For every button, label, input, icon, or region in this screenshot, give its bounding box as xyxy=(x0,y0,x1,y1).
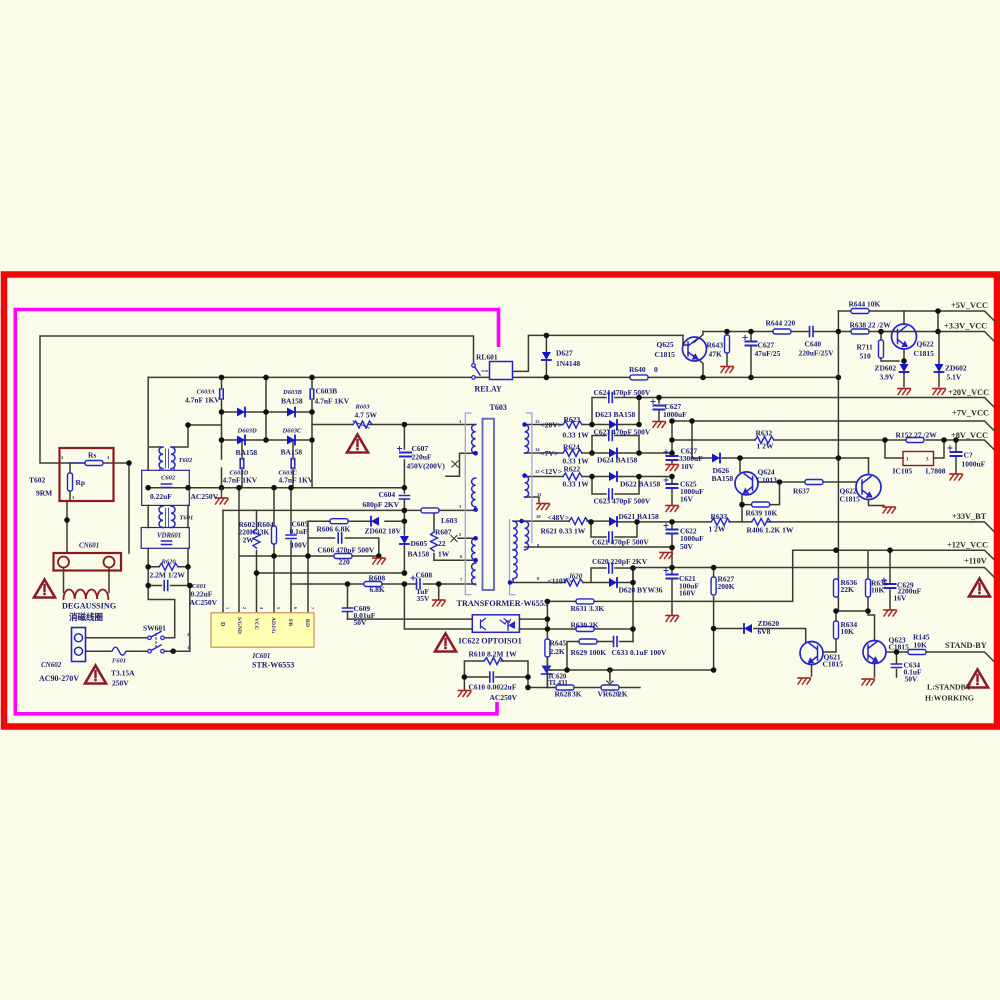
transformer primary winding 1 xyxy=(472,425,476,454)
resistor R606 xyxy=(330,519,348,524)
svg-text:47K: 47K xyxy=(709,350,723,359)
resistor R637 xyxy=(805,480,823,485)
svg-text:R633: R633 xyxy=(711,512,728,521)
svg-text:33K: 33K xyxy=(256,528,270,537)
wire snubber ZD row y521 xyxy=(308,510,404,573)
inductor L603 xyxy=(421,508,439,513)
svg-text:C633 0.1uF 100V: C633 0.1uF 100V xyxy=(612,648,668,657)
diode D603B xyxy=(287,408,295,417)
wire bottom row y687 xyxy=(528,687,640,689)
svg-text:2W: 2W xyxy=(243,536,255,545)
transformer primary winding 2 xyxy=(472,478,476,507)
ground AC250V xyxy=(221,488,223,497)
svg-text:AC250V: AC250V xyxy=(191,492,219,501)
svg-text:Rp: Rp xyxy=(76,478,86,487)
diode D627 xyxy=(542,352,551,360)
fuse F601 xyxy=(110,647,127,655)
capacitor C603B xyxy=(310,389,314,399)
svg-text:C621 470pF 500V: C621 470pF 500V xyxy=(592,538,649,547)
svg-text:0.1uF: 0.1uF xyxy=(290,527,309,536)
svg-text:R637: R637 xyxy=(793,487,810,496)
svg-text:IC601: IC601 xyxy=(252,652,271,660)
svg-text:VDR601: VDR601 xyxy=(157,533,181,540)
wire C606 row y538 xyxy=(308,521,379,556)
transformer secondary winding A xyxy=(525,425,529,454)
regulator IC105 L7808 xyxy=(903,452,934,466)
resistor R640 xyxy=(630,375,648,380)
capacitor C604 xyxy=(399,496,409,500)
transistor Q622 xyxy=(892,324,917,349)
resistor R610 xyxy=(484,658,503,665)
svg-text:BA158: BA158 xyxy=(281,397,303,406)
resistor J620 xyxy=(564,579,583,586)
svg-text:R628: R628 xyxy=(555,690,572,699)
svg-text:Q622: Q622 xyxy=(917,340,934,349)
capacitor C640 xyxy=(810,327,814,337)
svg-text:D603C: D603C xyxy=(282,428,302,435)
svg-text:10V: 10V xyxy=(681,462,695,471)
node dot Rp bottom xyxy=(64,517,70,523)
ground C627 3300 xyxy=(666,465,679,471)
resistor R608 xyxy=(364,582,382,587)
svg-text:IC105: IC105 xyxy=(893,467,913,476)
wire ZD620 row xyxy=(714,629,806,643)
transformer T603 core xyxy=(483,419,495,590)
connector CN601 xyxy=(54,553,122,571)
wire AC mains bus y377 xyxy=(148,376,471,378)
svg-text:AC90-270V: AC90-270V xyxy=(39,674,79,683)
svg-text:2.2M 1/2W: 2.2M 1/2W xyxy=(150,571,186,580)
svg-text:2K: 2K xyxy=(618,690,628,699)
svg-text:+12V_VCC: +12V_VCC xyxy=(947,541,988,550)
svg-text:9RM: 9RM xyxy=(36,489,52,498)
resistor R638 xyxy=(851,329,869,334)
resistor R627 xyxy=(711,577,716,595)
resistor R629 xyxy=(579,639,597,644)
svg-text:R406 1.2K 1W: R406 1.2K 1W xyxy=(747,526,794,535)
capacitor C621 470pF xyxy=(609,532,613,542)
svg-text:<20V>: <20V> xyxy=(541,421,562,430)
ground C629 xyxy=(884,610,897,616)
svg-text:D605: D605 xyxy=(411,539,428,548)
svg-text:C620 220pF 2KV: C620 220pF 2KV xyxy=(592,557,648,566)
capacitor C624 xyxy=(609,393,613,403)
capacitor C627 470pF xyxy=(609,431,613,441)
IC601 STR-W6553 xyxy=(211,613,314,647)
svg-text:D620 BYW36: D620 BYW36 xyxy=(619,586,663,595)
ground Q622 b xyxy=(883,507,896,513)
pin 5 tap mark xyxy=(451,536,457,542)
svg-text:1: 1 xyxy=(225,607,230,609)
svg-text:C?: C? xyxy=(964,451,973,460)
svg-text:C608: C608 xyxy=(416,571,433,580)
ground snubber xyxy=(373,558,386,564)
T602 posistor box xyxy=(60,448,114,501)
transformer secondary winding B xyxy=(525,476,529,498)
svg-text:3K: 3K xyxy=(572,690,582,699)
diode D605 xyxy=(400,536,409,544)
svg-text:50V: 50V xyxy=(354,618,368,627)
node dots C602 row xyxy=(145,485,151,491)
svg-text:+110V: +110V xyxy=(964,557,987,566)
ground pin11 xyxy=(537,504,550,510)
wire +7V rail and C627-3300 xyxy=(672,421,994,463)
svg-text:C1815: C1815 xyxy=(823,660,844,669)
red outer frame xyxy=(4,275,997,727)
svg-text:7: 7 xyxy=(310,607,315,609)
capacitor C602 box xyxy=(142,470,190,505)
wire R632 R152 +8V row xyxy=(672,440,994,473)
wire +110V rail xyxy=(633,568,994,615)
wire 220 row y556 xyxy=(240,555,379,557)
svg-text:3.9V: 3.9V xyxy=(880,373,895,382)
svg-text:L603: L603 xyxy=(441,516,458,525)
wire CN602 to switch xyxy=(86,638,148,651)
transistor Q625 xyxy=(683,337,707,361)
svg-text:RELAY: RELAY xyxy=(475,385,502,394)
svg-text:<12V>: <12V> xyxy=(541,467,562,476)
resistor R604 xyxy=(272,526,277,544)
ground R643 xyxy=(721,367,734,373)
warning triangle R603 xyxy=(347,435,368,453)
svg-text:C604: C604 xyxy=(379,490,396,499)
varistor VDR601 box xyxy=(141,528,189,549)
capacitor C610 xyxy=(490,672,494,682)
svg-text:STAND-BY: STAND-BY xyxy=(945,641,987,650)
wire AC choke verticals xyxy=(148,377,221,585)
wire C622 vertical xyxy=(671,522,673,568)
svg-text:10K: 10K xyxy=(841,627,855,636)
transformer secondary winding D xyxy=(525,521,529,550)
wire feedback R631 row xyxy=(547,550,792,687)
svg-text:+20V_VCC: +20V_VCC xyxy=(948,388,989,397)
wire R145 standby row xyxy=(886,652,994,677)
wire top right R643 C627 C640 row xyxy=(630,332,898,378)
wire secondary row3 12V xyxy=(525,477,672,505)
warning triangle degaussing xyxy=(34,580,55,598)
svg-text:6V8: 6V8 xyxy=(758,627,771,636)
ground C621 100uF xyxy=(666,616,679,622)
diode D623 xyxy=(609,420,617,429)
svg-text:C1815: C1815 xyxy=(840,495,861,504)
capacitor C? xyxy=(948,446,962,456)
svg-text:L:STANDBY: L:STANDBY xyxy=(927,683,972,692)
warning triangle opto xyxy=(435,634,456,652)
warning triangle right top xyxy=(969,579,990,597)
svg-text:+5V_VCC: +5V_VCC xyxy=(951,301,988,310)
choke T602 xyxy=(159,447,163,469)
ground Q623 xyxy=(862,679,875,685)
svg-text:STR-W6553: STR-W6553 xyxy=(252,661,294,670)
wire big vertical x838 xyxy=(837,311,839,611)
svg-text:IC622 OPTOISO1: IC622 OPTOISO1 xyxy=(459,637,522,646)
zener ZD602 3.9V xyxy=(900,364,909,372)
svg-text:RL601: RL601 xyxy=(476,353,498,362)
resistor R631 xyxy=(576,599,594,604)
svg-text:<48V>: <48V> xyxy=(548,513,569,522)
svg-text:FB: FB xyxy=(287,619,293,626)
svg-text:200K: 200K xyxy=(718,582,735,591)
zener ZD602 18V xyxy=(371,517,379,526)
wire D626 row xyxy=(692,457,869,459)
resistor R623 xyxy=(563,421,582,428)
svg-text:ZD602 18V: ZD602 18V xyxy=(365,527,402,536)
wire secondary pin11 gnd xyxy=(525,497,539,502)
wire R620 C601 rows xyxy=(148,567,190,586)
svg-text:2.2K: 2.2K xyxy=(550,647,565,656)
svg-text:Q625: Q625 xyxy=(657,340,674,349)
diode D603D xyxy=(237,436,245,445)
resistor R632 xyxy=(755,437,774,444)
svg-text:R644 10K: R644 10K xyxy=(849,300,881,309)
transistor Q624 xyxy=(735,472,758,495)
wire secondary row4 48V xyxy=(513,521,994,537)
wire Q625 area xyxy=(683,332,703,378)
wire secondary pin9 xyxy=(525,546,672,548)
svg-text:100V: 100V xyxy=(291,541,308,550)
optocoupler IC622 xyxy=(472,615,519,633)
transistor Q622 b xyxy=(856,475,881,500)
svg-text:D624 BA158: D624 BA158 xyxy=(597,456,637,465)
svg-text:47uF/25: 47uF/25 xyxy=(755,349,781,358)
capacitor C603C xyxy=(291,459,295,469)
pot VR620 xyxy=(601,685,619,690)
svg-text:1000uF: 1000uF xyxy=(962,460,986,469)
warning triangle fuse xyxy=(85,666,106,684)
ground ZD602 5.1 xyxy=(933,389,946,395)
capacitor C606 xyxy=(338,533,342,543)
svg-text:450V(200V): 450V(200V) xyxy=(407,462,446,471)
svg-text:4.7nF 1KV: 4.7nF 1KV xyxy=(315,397,350,406)
capacitor C625 xyxy=(664,478,678,488)
svg-text:BA158: BA158 xyxy=(712,474,734,483)
svg-text:R608: R608 xyxy=(369,574,386,583)
resistor R145 xyxy=(908,650,926,655)
svg-text:2: 2 xyxy=(242,607,247,609)
svg-text:+8V_VCC: +8V_VCC xyxy=(951,431,988,440)
svg-text:1 2W: 1 2W xyxy=(709,525,726,534)
svg-text:SW601: SW601 xyxy=(143,624,166,633)
wire +5V rail R644 xyxy=(838,311,994,332)
capacitor C634 xyxy=(892,664,902,668)
transformer secondary brackets xyxy=(510,413,532,595)
svg-text:220: 220 xyxy=(339,558,351,567)
svg-text:D623 BA158: D623 BA158 xyxy=(595,410,635,419)
diode D622 xyxy=(609,472,617,481)
svg-text:4.7nF 1KV: 4.7nF 1KV xyxy=(223,476,258,485)
diode D620 xyxy=(609,578,617,587)
wire bridge columns xyxy=(222,377,313,487)
svg-text:22K: 22K xyxy=(841,585,855,594)
svg-text:C623 470pF 500V: C623 470pF 500V xyxy=(594,497,651,506)
svg-text:R607: R607 xyxy=(435,528,452,537)
svg-text:VCC: VCC xyxy=(253,618,259,630)
svg-text:R624: R624 xyxy=(563,443,580,452)
svg-text:C627 470pF 500V: C627 470pF 500V xyxy=(594,428,651,437)
resistor R603 fusible xyxy=(353,421,372,428)
wire secondary row5 110V xyxy=(510,568,633,583)
svg-text:14: 14 xyxy=(535,447,540,452)
wire secondary row2 7V xyxy=(525,436,672,454)
resistor R621 xyxy=(569,518,588,525)
svg-text:D627: D627 xyxy=(556,349,573,358)
svg-text:CN602: CN602 xyxy=(41,661,62,669)
svg-text:4.7nF 1KV: 4.7nF 1KV xyxy=(185,396,220,405)
svg-text:ADJ/G: ADJ/G xyxy=(270,617,276,634)
bridge node dots xyxy=(219,375,225,381)
svg-text:C602: C602 xyxy=(161,475,176,482)
zener ZD620 xyxy=(744,624,752,633)
node dot switch out xyxy=(170,648,176,654)
capacitor C623 xyxy=(609,489,613,499)
wire SW601 to chokes xyxy=(148,586,190,652)
capacitor C621 100uF xyxy=(664,569,678,579)
svg-text:11: 11 xyxy=(537,492,542,497)
svg-text:R711: R711 xyxy=(857,343,874,352)
svg-text:R639 10K: R639 10K xyxy=(746,509,778,518)
svg-text:T601: T601 xyxy=(180,515,194,522)
svg-text:CN601: CN601 xyxy=(79,542,99,550)
diode D603A xyxy=(237,408,245,417)
ground C625 xyxy=(666,506,679,512)
wire Q621 Q623 xyxy=(812,611,875,677)
capacitor C605 xyxy=(286,535,296,539)
resistor R643 xyxy=(725,335,730,353)
wire top left loop xyxy=(40,336,474,553)
svg-text:T602: T602 xyxy=(179,457,193,464)
resistor R602 xyxy=(253,529,260,548)
wire TL431 row y670 xyxy=(547,670,713,681)
wire R635 R636 R634 xyxy=(823,550,890,652)
capacitor C608 xyxy=(417,579,421,589)
wire vcc bus y573 xyxy=(257,572,405,574)
ground C? xyxy=(950,474,963,480)
svg-text:R603: R603 xyxy=(355,404,371,411)
wire FB row y584 xyxy=(291,584,476,599)
svg-text:<7V>: <7V> xyxy=(541,449,559,458)
svg-text:R632: R632 xyxy=(756,429,773,438)
resistor R639 xyxy=(752,502,770,507)
svg-text:R623: R623 xyxy=(564,415,581,424)
svg-text:5.1V: 5.1V xyxy=(947,373,962,382)
svg-text:TL431: TL431 xyxy=(549,680,569,687)
svg-text:0.33 1W: 0.33 1W xyxy=(563,480,590,489)
svg-text:T602: T602 xyxy=(29,476,46,485)
svg-text:680pF 2KV: 680pF 2KV xyxy=(363,500,400,509)
capacitor C629 xyxy=(882,578,896,588)
svg-text:T603: T603 xyxy=(490,403,507,412)
svg-text:消磁线圈: 消磁线圈 xyxy=(69,612,103,622)
resistor R645 xyxy=(545,639,550,657)
svg-text:13: 13 xyxy=(535,419,540,424)
svg-text:+3.3V_VCC: +3.3V_VCC xyxy=(944,322,987,331)
wire C607 vertical xyxy=(403,425,405,488)
svg-text:AC250V: AC250V xyxy=(190,598,218,607)
svg-text:220uF/25V: 220uF/25V xyxy=(799,349,835,358)
capacitor C601 xyxy=(164,581,168,591)
diode D603C xyxy=(287,436,295,445)
svg-text:50V: 50V xyxy=(905,675,919,684)
relay RL601 xyxy=(472,364,476,368)
wire Q622 top xyxy=(904,311,939,387)
resistor R636 xyxy=(834,579,839,597)
svg-text:0.22uF: 0.22uF xyxy=(150,492,172,501)
svg-text:1000uF: 1000uF xyxy=(663,410,687,419)
transistor Q623 xyxy=(863,641,886,664)
wire +20V rail xyxy=(639,398,994,421)
resistor 220 xyxy=(334,554,352,559)
svg-text:ZD602: ZD602 xyxy=(945,364,967,373)
svg-text:F601: F601 xyxy=(112,658,126,665)
capacitor C633 xyxy=(614,637,618,647)
svg-text:6: 6 xyxy=(293,607,298,609)
svg-text:BA158: BA158 xyxy=(236,448,258,457)
svg-text:12: 12 xyxy=(535,469,540,474)
svg-text:BA158: BA158 xyxy=(408,550,430,559)
svg-text:50V: 50V xyxy=(680,542,694,551)
svg-text:5: 5 xyxy=(276,607,281,609)
resistor R711 xyxy=(879,340,884,358)
wire R629 C633 row xyxy=(567,642,633,671)
resistor R406 xyxy=(752,518,771,525)
wire Q624 xyxy=(740,458,856,522)
svg-text:R630 2K: R630 2K xyxy=(571,621,599,630)
resistor R633 xyxy=(711,518,730,525)
svg-text:510: 510 xyxy=(860,352,872,361)
capacitor C620 xyxy=(609,563,613,573)
svg-text:D622 BA158: D622 BA158 xyxy=(620,480,660,489)
resistor R644 10K xyxy=(851,309,869,314)
resistor Rs xyxy=(85,461,103,466)
svg-text:ZD602: ZD602 xyxy=(875,364,897,373)
svg-text:+33V_BT: +33V_BT xyxy=(952,512,987,521)
capacitor C603A xyxy=(220,389,224,399)
svg-text:10: 10 xyxy=(536,514,541,519)
diode D624 xyxy=(609,449,617,458)
wire R610 C610 loop xyxy=(464,661,528,690)
shunt reg IC620 TL431 xyxy=(542,666,552,674)
ground ZD602 3.9 xyxy=(898,389,911,395)
resistor R622 xyxy=(563,473,582,480)
svg-text:R640: R640 xyxy=(629,365,646,374)
capacitor C607 xyxy=(398,447,412,457)
svg-text:L7808: L7808 xyxy=(926,467,946,476)
wire R603 row to transformer pin1 xyxy=(312,424,476,426)
resistor R628 xyxy=(556,685,574,690)
resistor R624 xyxy=(563,450,582,457)
resistor R630 xyxy=(576,627,594,632)
transistor Q621 xyxy=(800,642,823,665)
wire R607 xyxy=(434,510,476,560)
svg-text:160V: 160V xyxy=(679,589,696,598)
svg-text:R620: R620 xyxy=(161,559,177,566)
wire Rp to CN601 xyxy=(67,463,70,553)
switch SW601 xyxy=(148,636,152,640)
resistor R607 xyxy=(431,532,438,551)
svg-text:C606 470pF 500V: C606 470pF 500V xyxy=(318,546,375,555)
svg-text:R621 0.33 1W: R621 0.33 1W xyxy=(541,527,586,536)
svg-text:10K: 10K xyxy=(914,641,928,650)
transformer primary winding 4 xyxy=(472,563,476,585)
svg-text:D621 BA158: D621 BA158 xyxy=(619,512,659,521)
svg-text:D603B: D603B xyxy=(282,389,302,396)
svg-text:C610 0.0022uF: C610 0.0022uF xyxy=(469,683,517,692)
pin 2 tap mark xyxy=(452,461,458,467)
svg-text:C603B: C603B xyxy=(316,387,338,396)
wire C609 stub xyxy=(347,584,349,619)
wire opto rows xyxy=(348,584,634,629)
ground C610 xyxy=(458,691,471,697)
